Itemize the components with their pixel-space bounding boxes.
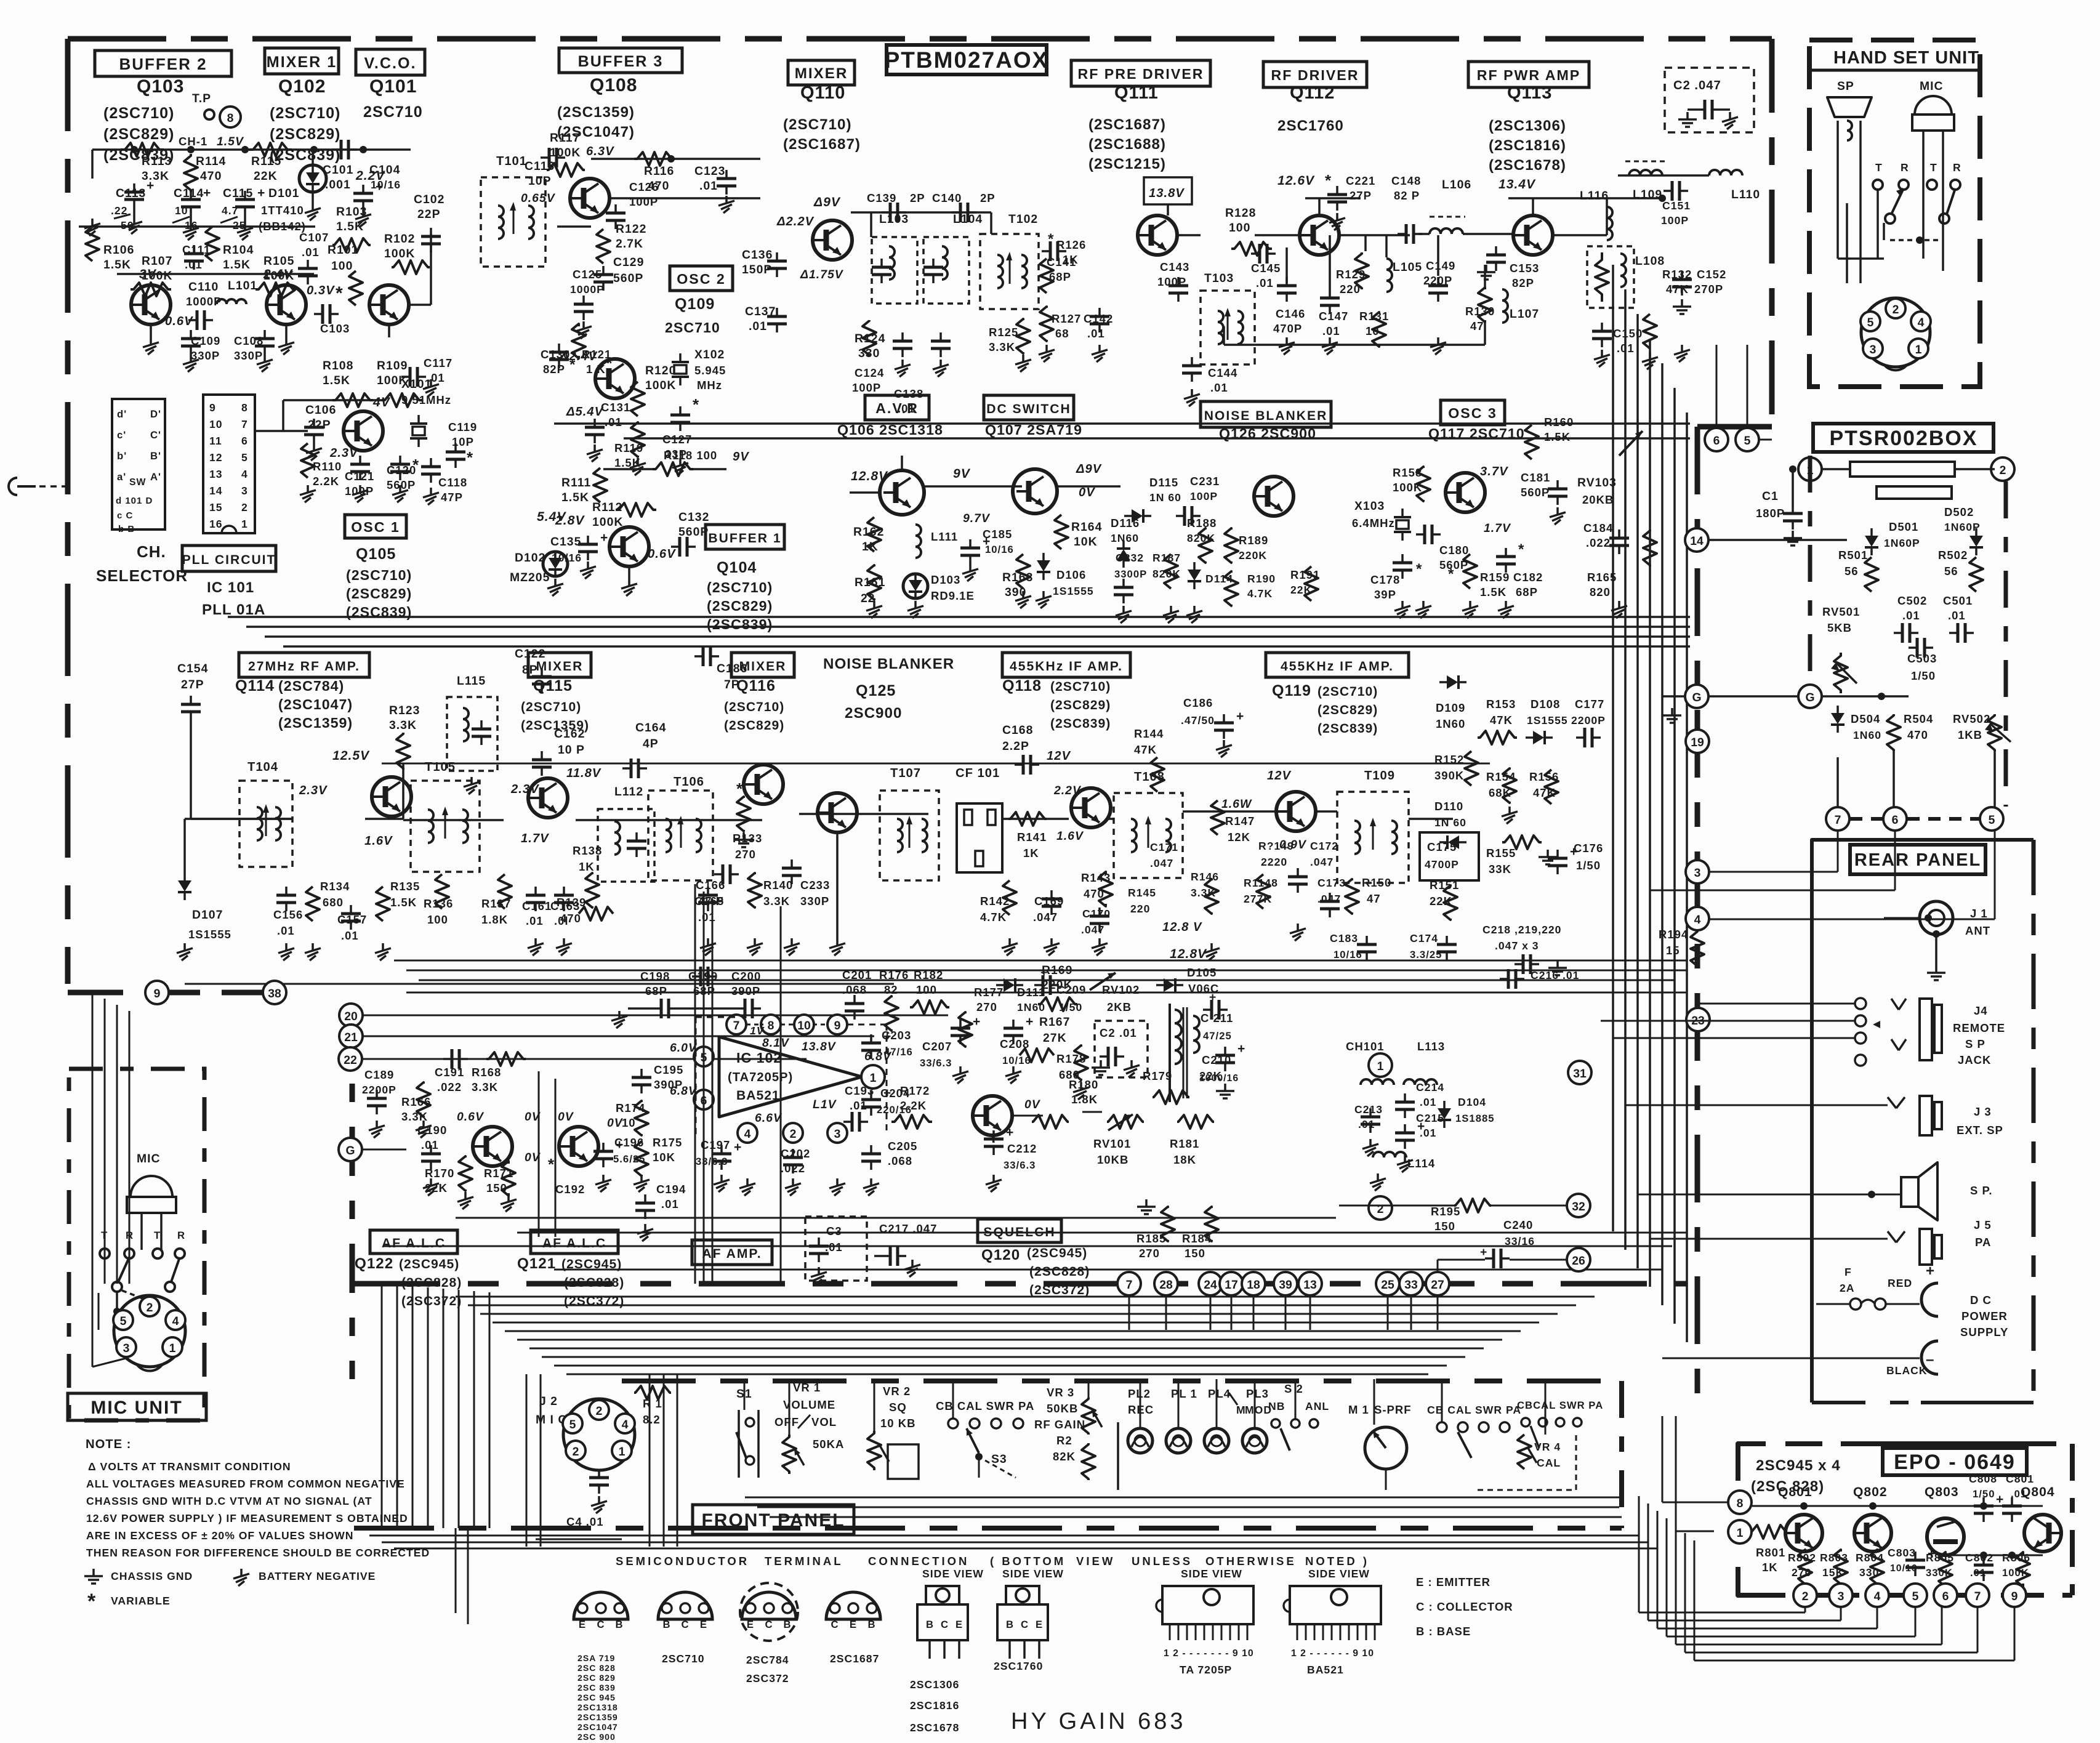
svg-text:(2SC1047): (2SC1047) <box>278 696 353 712</box>
svg-text:470P: 470P <box>1273 322 1302 335</box>
svg-text:33: 33 <box>1404 1278 1418 1292</box>
svg-text:4V: 4V <box>372 395 391 409</box>
svg-text:D102: D102 <box>515 551 545 565</box>
svg-text:R194: R194 <box>1659 928 1688 941</box>
svg-text:.01: .01 <box>1420 1096 1436 1108</box>
svg-text:22K: 22K <box>254 169 278 183</box>
svg-text:3.3K: 3.3K <box>472 1081 498 1093</box>
svg-text:C218 ,219,220: C218 ,219,220 <box>1482 924 1561 936</box>
svg-text:CF 101: CF 101 <box>955 767 1000 780</box>
svg-text:.01: .01 <box>1119 1026 1137 1039</box>
zener D103 RD9.1E <box>903 574 928 598</box>
svg-text:455KHz IF AMP.: 455KHz IF AMP. <box>1010 659 1123 674</box>
svg-text:1.5K: 1.5K <box>103 258 131 272</box>
svg-text:MIC: MIC <box>1920 79 1944 93</box>
svg-text:2SC784: 2SC784 <box>746 1654 789 1666</box>
svg-text:R502: R502 <box>1938 549 1968 562</box>
svg-text:22P: 22P <box>308 418 331 432</box>
svg-text:1V: 1V <box>750 1024 765 1037</box>
svg-text:1N60P: 1N60P <box>1884 537 1920 549</box>
svg-text:C212: C212 <box>1007 1142 1037 1155</box>
pinout TO92 2SC784/2SC372 dashed <box>740 1583 798 1641</box>
terminal 6 top <box>1705 428 1728 451</box>
svg-text:(2SC710): (2SC710) <box>724 700 784 714</box>
svg-text:470: 470 <box>200 169 222 183</box>
svg-text:D105: D105 <box>1187 966 1217 979</box>
svg-text:R156: R156 <box>1529 770 1559 783</box>
svg-text:C145: C145 <box>1251 262 1281 275</box>
svg-text:9V: 9V <box>953 467 971 481</box>
svg-text:R171: R171 <box>484 1167 513 1180</box>
svg-text:1/50: 1/50 <box>1059 1001 1082 1013</box>
svg-text:1/50: 1/50 <box>1576 859 1601 872</box>
svg-text:MIXER: MIXER <box>795 65 848 82</box>
svg-text:5: 5 <box>120 1314 127 1328</box>
svg-text:2: 2 <box>147 1301 153 1314</box>
svg-text:2SC1816: 2SC1816 <box>910 1699 959 1712</box>
svg-text:C501: C501 <box>1943 594 1973 607</box>
svg-text:47/16: 47/16 <box>884 1046 913 1058</box>
svg-text:C152: C152 <box>1697 268 1726 281</box>
svg-text:3: 3 <box>123 1342 130 1355</box>
svg-text:1.5K: 1.5K <box>1480 586 1507 598</box>
svg-text:C102: C102 <box>414 193 445 206</box>
svg-text:C143: C143 <box>1160 260 1189 273</box>
svg-text:F: F <box>1845 1266 1852 1278</box>
svg-text:C184: C184 <box>1583 521 1613 534</box>
svg-text:+: + <box>203 186 211 200</box>
svg-text:C183: C183 <box>1330 932 1358 944</box>
svg-text:R159: R159 <box>1480 571 1510 584</box>
svg-text:1: 1 <box>619 1445 626 1459</box>
svg-text:2200P: 2200P <box>362 1084 396 1096</box>
svg-text:ARE IN EXCESS OF ± 20% O: ARE IN EXCESS OF ± 20% OF VALUES SHOWN <box>86 1529 353 1542</box>
svg-text:6.6V: 6.6V <box>755 1111 782 1125</box>
svg-text:2KB: 2KB <box>1107 1000 1132 1013</box>
svg-text:VOL: VOL <box>811 1415 837 1428</box>
svg-text:47K: 47K <box>1533 786 1556 799</box>
svg-text:1.5V: 1.5V <box>217 135 244 148</box>
svg-text:E: E <box>700 1619 707 1630</box>
svg-text:+: + <box>1480 1246 1487 1259</box>
svg-text:R179: R179 <box>1143 1069 1172 1082</box>
svg-text:E : EMITTER: E : EMITTER <box>1416 1576 1491 1588</box>
wire buffer3 rail <box>591 158 760 160</box>
svg-text:17: 17 <box>1225 1278 1238 1292</box>
svg-text:MIC UNIT: MIC UNIT <box>91 1398 182 1418</box>
svg-text:C168: C168 <box>1002 723 1033 737</box>
svg-text:22: 22 <box>344 1053 357 1067</box>
svg-text:C181: C181 <box>1521 471 1550 484</box>
svg-text:(2SC829): (2SC829) <box>707 598 773 614</box>
svg-text:VOLUME: VOLUME <box>783 1398 835 1411</box>
svg-text:2SC945 x 4: 2SC945 x 4 <box>1756 1457 1841 1474</box>
svg-text:(2SC945): (2SC945) <box>1027 1246 1087 1260</box>
terminal 3 right <box>1686 860 1709 884</box>
svg-text:CH.: CH. <box>137 542 166 561</box>
resistor bar lower <box>1877 486 1952 499</box>
svg-text:*: * <box>467 448 473 467</box>
svg-text:47P: 47P <box>441 491 463 504</box>
svg-text:(2SC710): (2SC710) <box>270 105 340 122</box>
wire bus left column down <box>92 992 94 1284</box>
svg-text:T109: T109 <box>1364 769 1395 783</box>
terminal 21 <box>339 1024 363 1048</box>
svg-text:VIEW: VIEW <box>1076 1555 1115 1568</box>
svg-text:.01: .01 <box>1902 609 1920 622</box>
terminal 31 <box>1568 1061 1591 1084</box>
svg-text:OSC 1: OSC 1 <box>351 519 400 535</box>
svg-text:28: 28 <box>1159 1278 1173 1292</box>
svg-text:1.5K: 1.5K <box>323 374 350 387</box>
svg-text:REAR PANEL: REAR PANEL <box>1854 850 1981 870</box>
svg-text:J 3: J 3 <box>1974 1105 1992 1118</box>
svg-text:1S1555: 1S1555 <box>1527 714 1568 727</box>
mic unit connector <box>114 1295 185 1367</box>
svg-text:.01: .01 <box>302 246 320 259</box>
svg-text:3.3K: 3.3K <box>142 169 169 183</box>
svg-text:+: + <box>883 1029 891 1044</box>
svg-text:PL 1: PL 1 <box>1171 1387 1197 1400</box>
svg-text:50KA: 50KA <box>813 1438 844 1451</box>
svg-text:FRONT PANEL: FRONT PANEL <box>701 1510 845 1531</box>
wire alc verticals <box>538 1071 540 1237</box>
svg-text:C147: C147 <box>1319 310 1348 323</box>
svg-text:C126: C126 <box>629 180 659 193</box>
svg-text:Δ1.75V: Δ1.75V <box>800 268 844 281</box>
svg-text:32: 32 <box>1572 1200 1585 1214</box>
rear panel outline <box>1812 840 2034 948</box>
wire bus rails center <box>228 616 1690 618</box>
svg-text:CHASSIS GND: CHASSIS GND <box>111 1570 193 1582</box>
svg-text:C503: C503 <box>1907 652 1937 665</box>
svg-text:2220: 2220 <box>1261 856 1287 868</box>
svg-text:R185: R185 <box>1136 1232 1166 1245</box>
svg-text:(2SC710): (2SC710) <box>783 116 852 133</box>
block label AF A.L.C (Q122) <box>370 1230 457 1254</box>
svg-text:(2SC1306): (2SC1306) <box>1489 118 1566 134</box>
wire bus verticals to front panel <box>744 1379 746 1410</box>
transistor Q104 buffer1 <box>609 527 649 566</box>
svg-text:BA521: BA521 <box>736 1089 780 1103</box>
svg-text:.022: .022 <box>437 1081 462 1093</box>
svg-text:1N60: 1N60 <box>1853 729 1881 741</box>
svg-text:10/16: 10/16 <box>1002 1055 1031 1066</box>
svg-text:AF A.L.C: AF A.L.C <box>542 1236 606 1250</box>
svg-text:(2SC372): (2SC372) <box>1029 1283 1090 1297</box>
svg-text:EXT. SP: EXT. SP <box>1957 1124 2003 1137</box>
transistor Q114 rf amp <box>372 777 411 816</box>
terminal 7 <box>1826 807 1849 831</box>
svg-text:S3: S3 <box>991 1452 1007 1466</box>
transistor Q112 RF driver <box>1300 215 1339 255</box>
pinout TO92 2SA719 group <box>574 1592 628 1619</box>
svg-text:C149: C149 <box>1426 259 1455 272</box>
wire mixer rail <box>851 211 991 214</box>
svg-text:1.5K: 1.5K <box>390 896 417 909</box>
svg-text:C174: C174 <box>1410 932 1438 944</box>
svg-text:(2SC828): (2SC828) <box>1029 1265 1090 1279</box>
svg-text:BLACK: BLACK <box>1886 1364 1928 1377</box>
svg-text:b B: b B <box>118 524 135 534</box>
wire right vertical bundle <box>1612 265 1614 1231</box>
svg-text:C205: C205 <box>888 1140 917 1153</box>
svg-text:2.3V: 2.3V <box>329 446 358 460</box>
IC101 PLL DIP package <box>203 395 255 533</box>
svg-text:1.6W: 1.6W <box>1221 797 1252 811</box>
svg-text:R180: R180 <box>1069 1078 1098 1091</box>
terminal 33 <box>1399 1272 1423 1295</box>
svg-text:(2SC829): (2SC829) <box>724 719 784 733</box>
svg-text:.01: .01 <box>2011 1488 2027 1500</box>
svg-text:Δ VOLTS AT TRANSMIT CONDITION: Δ VOLTS AT TRANSMIT CONDITION <box>88 1460 291 1473</box>
wire bus below front panel <box>369 1535 1639 1537</box>
svg-text:*: * <box>736 779 743 798</box>
channel selector switch block <box>112 399 165 529</box>
wire top rail <box>92 148 411 151</box>
block label RF DRIVER <box>1263 62 1367 87</box>
svg-text:c C: c C <box>117 510 133 521</box>
capacitor C2 .01 dashed <box>1095 1021 1148 1077</box>
svg-text:C124: C124 <box>855 366 884 379</box>
svg-text:50KB: 50KB <box>1047 1402 1078 1415</box>
svg-text:R164: R164 <box>1071 520 1102 534</box>
svg-text:+: + <box>600 531 608 545</box>
svg-text:S P: S P <box>1965 1037 1985 1050</box>
svg-text:NOISE BLANKER: NOISE BLANKER <box>1204 409 1328 423</box>
svg-text:R167: R167 <box>1039 1015 1070 1029</box>
svg-text:0.65V: 0.65V <box>521 191 556 205</box>
svg-text:(2SC1215): (2SC1215) <box>1088 156 1166 172</box>
svg-text:330P: 330P <box>234 349 263 362</box>
PTSR terminal 1 <box>1798 457 1822 481</box>
svg-text:C221: C221 <box>1346 174 1375 187</box>
svg-text:Q121: Q121 <box>517 1255 556 1272</box>
svg-text:1S1555: 1S1555 <box>1053 585 1094 597</box>
svg-text:+: + <box>1006 1125 1014 1140</box>
svg-text:.068: .068 <box>888 1154 912 1167</box>
svg-text:2: 2 <box>1802 1590 1809 1603</box>
svg-text:100K: 100K <box>550 146 581 159</box>
svg-text:10: 10 <box>209 418 223 430</box>
svg-text:R123: R123 <box>389 704 420 717</box>
svg-text:+: + <box>1040 966 1048 980</box>
svg-text:+: + <box>147 179 155 193</box>
transistor Q115 mixer <box>528 778 568 818</box>
svg-text:18K: 18K <box>1173 1153 1196 1166</box>
svg-text:2: 2 <box>1893 303 1899 316</box>
terminal G right <box>1798 685 1822 708</box>
transistor Q121 af alc <box>559 1127 598 1166</box>
svg-text:C103: C103 <box>320 322 350 335</box>
svg-text:2SC710: 2SC710 <box>665 320 720 336</box>
svg-text:7: 7 <box>733 1019 740 1033</box>
svg-text:270: 270 <box>976 1000 997 1013</box>
svg-text:31: 31 <box>1573 1067 1587 1081</box>
svg-text:IC 102: IC 102 <box>736 1050 782 1066</box>
svg-text:3.3K: 3.3K <box>763 895 790 908</box>
svg-text:SP: SP <box>1837 79 1854 93</box>
svg-text:CH-1: CH-1 <box>179 135 207 148</box>
svg-text:1.5K: 1.5K <box>1544 430 1571 443</box>
svg-text:68P: 68P <box>645 984 667 997</box>
svg-text:C: C <box>765 1619 773 1630</box>
svg-text:d': d' <box>117 408 127 420</box>
svg-text:C3: C3 <box>826 1225 842 1238</box>
svg-text:9: 9 <box>2011 1590 2018 1603</box>
svg-text:R501: R501 <box>1838 549 1868 562</box>
svg-text:2SC1678: 2SC1678 <box>910 1721 959 1734</box>
block label V.C.O. <box>356 49 425 75</box>
svg-text:10 KB: 10 KB <box>880 1417 915 1430</box>
svg-text:SQ: SQ <box>889 1401 907 1414</box>
svg-text:11.8V: 11.8V <box>566 767 601 780</box>
terminal 5 top <box>1736 428 1759 451</box>
block label SQUELCH <box>978 1219 1061 1242</box>
svg-text:10KB: 10KB <box>1097 1153 1128 1166</box>
svg-text:SIDE VIEW: SIDE VIEW <box>1308 1568 1370 1580</box>
svg-text:C213: C213 <box>1354 1103 1383 1116</box>
block label NOISE BLANKER (upper) <box>1201 401 1331 427</box>
svg-text:10/16: 10/16 <box>552 552 582 564</box>
svg-text:560P: 560P <box>613 272 643 285</box>
block label MIXER <box>788 60 855 85</box>
capacitor C3 .01 dashed box <box>805 1217 867 1281</box>
svg-text:8: 8 <box>1737 1497 1744 1510</box>
svg-text:C808: C808 <box>1969 1473 1997 1485</box>
svg-text:38: 38 <box>268 987 281 1000</box>
svg-text:455KHz IF AMP.: 455KHz IF AMP. <box>1281 659 1394 674</box>
svg-text:HY GAIN 683: HY GAIN 683 <box>1011 1709 1186 1734</box>
svg-text:C132: C132 <box>678 510 709 524</box>
svg-text:CH101: CH101 <box>1346 1040 1385 1053</box>
svg-text:2.3V: 2.3V <box>299 784 328 797</box>
svg-text:100K: 100K <box>645 379 676 392</box>
svg-text:CBCAL SWR PA: CBCAL SWR PA <box>1517 1399 1603 1411</box>
terminal 22 <box>339 1047 362 1071</box>
svg-text:R190: R190 <box>1247 573 1276 585</box>
svg-text:22P: 22P <box>417 207 441 221</box>
svg-text:2SC900: 2SC900 <box>845 705 902 722</box>
svg-text:REMOTE: REMOTE <box>1953 1021 2005 1034</box>
svg-text:CAL: CAL <box>1537 1457 1561 1469</box>
svg-text:*: * <box>548 1155 555 1173</box>
svg-text:33/6.3: 33/6.3 <box>1004 1159 1036 1171</box>
svg-text:C182: C182 <box>1513 571 1543 584</box>
wires into rear panel <box>1697 1003 1855 1005</box>
svg-text:RV101: RV101 <box>1093 1137 1131 1150</box>
svg-text:D115: D115 <box>1149 476 1178 489</box>
wire bottom if ground rail <box>185 983 894 985</box>
svg-text:RF DRIVER: RF DRIVER <box>1271 67 1359 83</box>
svg-text:(2SC839): (2SC839) <box>707 616 773 632</box>
front panel border <box>622 1379 1622 1383</box>
svg-text:3.3K: 3.3K <box>389 719 417 732</box>
svg-text:B: B <box>615 1619 623 1630</box>
transistor Q116 mixer2 <box>744 765 783 804</box>
mic unit label box <box>68 1393 206 1420</box>
front panel label box <box>693 1505 854 1534</box>
svg-text:390P: 390P <box>654 1078 683 1091</box>
svg-text:4: 4 <box>1874 1590 1881 1603</box>
svg-text:2: 2 <box>790 1127 797 1141</box>
svg-text:+: + <box>983 534 991 549</box>
svg-text:T102: T102 <box>1008 212 1038 226</box>
svg-text:13.8V: 13.8V <box>802 1040 837 1053</box>
svg-text:C214: C214 <box>1416 1081 1444 1093</box>
svg-text:RED: RED <box>1888 1277 1912 1289</box>
mic unit dashed box <box>69 1069 204 1420</box>
svg-text:D116: D116 <box>1111 517 1140 529</box>
svg-text:2200P: 2200P <box>1571 714 1606 727</box>
svg-text:C119: C119 <box>448 421 477 433</box>
svg-text:3300P: 3300P <box>1114 568 1147 580</box>
block label RF PWR AMP <box>1468 62 1589 87</box>
svg-text:100P: 100P <box>852 381 881 394</box>
svg-text:D501: D501 <box>1889 520 1918 533</box>
svg-text:J 1: J 1 <box>1970 907 1988 920</box>
wire supply rail B <box>624 437 1690 440</box>
svg-text:47/25: 47/25 <box>1203 1030 1232 1042</box>
svg-text:C2 .047: C2 .047 <box>1673 79 1721 92</box>
transistor Q120 squelch <box>973 1096 1012 1135</box>
svg-text:C: C <box>941 1619 949 1630</box>
svg-text:12.6V: 12.6V <box>1277 174 1315 188</box>
svg-text:82P: 82P <box>1512 276 1534 289</box>
svg-text:0V: 0V <box>1079 486 1095 499</box>
svg-text:Q115: Q115 <box>533 677 573 694</box>
svg-text:(2SC829): (2SC829) <box>270 126 340 143</box>
svg-text:+: + <box>257 186 265 200</box>
svg-text:R504: R504 <box>1904 712 1933 725</box>
svg-text:470: 470 <box>1907 728 1928 741</box>
svg-text:2.3V: 2.3V <box>510 783 539 796</box>
svg-text:1: 1 <box>870 1071 877 1085</box>
svg-text:C173: C173 <box>1318 877 1346 889</box>
svg-text:R125: R125 <box>989 326 1018 339</box>
svg-text:D502: D502 <box>1944 505 1974 518</box>
block label MIXER (Q116) <box>731 653 794 677</box>
svg-text:E: E <box>1036 1619 1043 1630</box>
wire bus audio to front panel <box>456 1296 1595 1298</box>
svg-text:330: 330 <box>858 347 880 360</box>
svg-text:Δ9V: Δ9V <box>1076 462 1102 476</box>
svg-text:13.8V: 13.8V <box>1149 187 1185 200</box>
svg-text:L104: L104 <box>953 212 983 226</box>
terminal G left <box>1685 685 1708 708</box>
svg-text:22K: 22K <box>425 1181 448 1194</box>
svg-text:.47/50: .47/50 <box>1181 714 1215 727</box>
svg-text:3: 3 <box>1838 1590 1845 1603</box>
note chassis gnd symbol <box>92 1569 95 1576</box>
svg-text:21: 21 <box>344 1031 358 1044</box>
svg-text:ANT: ANT <box>1965 924 1990 937</box>
svg-text:(2SC784): (2SC784) <box>278 678 344 694</box>
svg-text:R134: R134 <box>320 880 350 893</box>
svg-text:82P: 82P <box>543 363 565 376</box>
svg-text:BUFFER 3: BUFFER 3 <box>578 53 664 70</box>
svg-text:C: C <box>1021 1619 1029 1630</box>
svg-text:220: 220 <box>1130 903 1150 915</box>
block label PLL CIRCUIT <box>182 545 276 571</box>
svg-text:10K: 10K <box>653 1151 675 1164</box>
block label OSC 3 <box>1441 400 1505 425</box>
block label 455KHz IF AMP (Q119) <box>1266 653 1409 677</box>
svg-text:7: 7 <box>241 418 248 430</box>
svg-text:C240: C240 <box>1503 1218 1533 1231</box>
svg-text:.01: .01 <box>1948 609 1966 622</box>
svg-text:6: 6 <box>1713 434 1720 448</box>
